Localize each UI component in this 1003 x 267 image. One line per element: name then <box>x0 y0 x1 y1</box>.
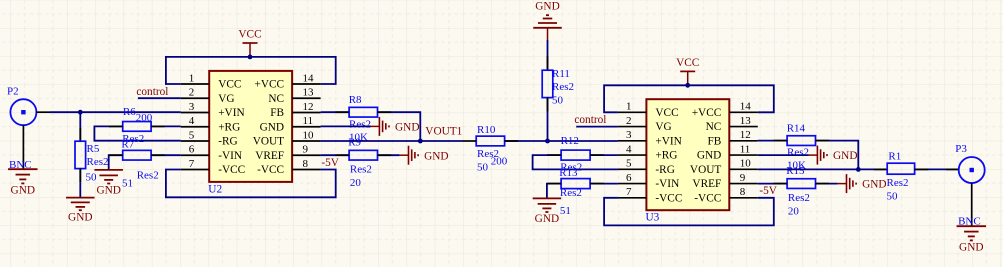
svg-text:3: 3 <box>626 129 632 141</box>
svg-text:Res2: Res2 <box>87 156 109 168</box>
svg-text:GND: GND <box>260 121 284 133</box>
svg-text:R13: R13 <box>559 167 578 179</box>
svg-text:GND: GND <box>535 0 559 12</box>
svg-text:GND: GND <box>862 179 886 191</box>
svg-text:GND: GND <box>535 213 559 225</box>
svg-text:50: 50 <box>86 171 98 183</box>
svg-text:NC: NC <box>268 93 284 105</box>
svg-text:6: 6 <box>626 172 632 184</box>
resistor R1 <box>887 163 914 174</box>
svg-text:GND: GND <box>11 185 35 197</box>
svg-text:control: control <box>136 86 168 98</box>
svg-text:51: 51 <box>122 177 133 189</box>
wire R1 to P3 <box>915 168 959 170</box>
svg-text:P3: P3 <box>955 143 967 155</box>
ground top flipped above R11 <box>533 0 562 28</box>
svg-text:-RG: -RG <box>655 164 674 176</box>
svg-text:14: 14 <box>740 101 752 113</box>
svg-text:control: control <box>574 114 606 126</box>
svg-text:VOUT: VOUT <box>690 164 721 176</box>
wire R7 left to ground <box>109 155 123 170</box>
ground U3 VREF rotated <box>838 174 887 193</box>
svg-text:VG: VG <box>655 121 671 133</box>
svg-text:GND: GND <box>395 122 419 134</box>
svg-text:R12: R12 <box>561 135 579 147</box>
U3 pin 9 <box>729 183 758 185</box>
wire R15 to ground <box>816 183 838 185</box>
svg-text:50: 50 <box>887 190 899 202</box>
wire R11 to VOUT1 line <box>547 98 549 141</box>
U2 pin 5 <box>181 140 210 142</box>
svg-text:U2: U2 <box>208 183 222 195</box>
svg-text:10: 10 <box>740 158 752 170</box>
svg-text:200: 200 <box>136 112 153 124</box>
wire VOUT net U2 pin10 to R10 <box>321 140 463 142</box>
ground P3 shield GND <box>957 226 987 253</box>
ground P2 shield GND <box>8 169 38 196</box>
junction output node <box>856 167 861 172</box>
ground U2 pin11 rotated <box>371 117 420 136</box>
junction VOUT1 <box>418 139 423 144</box>
svg-text:-5V: -5V <box>321 157 339 169</box>
svg-text:U3: U3 <box>646 212 660 224</box>
svg-text:Res2: Res2 <box>787 147 809 159</box>
U3 pin 13 <box>729 126 758 128</box>
svg-text:6: 6 <box>189 144 195 156</box>
resistor R14 <box>787 136 815 146</box>
U2 pin 11 <box>292 126 321 128</box>
ground below R5 <box>66 198 95 224</box>
svg-text:3: 3 <box>189 101 195 113</box>
wire control to pin2 <box>138 97 181 99</box>
wire -VCC loop pin7 to pin8 U2 <box>166 170 336 198</box>
wire R10 to U3 pin3 <box>505 140 618 142</box>
U2 pin 10 <box>292 140 321 142</box>
wire pin9 to R9 <box>321 154 350 156</box>
wire R14 to output node <box>816 141 859 170</box>
svg-text:VOUT1: VOUT1 <box>425 126 462 138</box>
U3 pin 14 <box>729 111 758 113</box>
svg-text:2: 2 <box>626 115 632 127</box>
svg-text:51: 51 <box>560 205 571 217</box>
ground R13 <box>533 198 562 225</box>
wire R9 to ground <box>378 154 400 156</box>
U3 pin 10 <box>729 168 758 170</box>
wire control to U3 pin2 <box>576 126 618 128</box>
U2 pin 9 <box>292 154 321 156</box>
wire P3 shield down <box>971 183 973 226</box>
wire P2 to U2 pin3 <box>50 111 181 113</box>
ground R7 <box>94 170 123 197</box>
svg-text:R15: R15 <box>786 165 805 177</box>
svg-text:VREF: VREF <box>692 178 721 190</box>
wire pin11 to ground <box>321 125 371 127</box>
svg-text:-VIN: -VIN <box>655 178 679 190</box>
svg-text:20: 20 <box>350 177 362 189</box>
svg-text:5: 5 <box>626 158 632 170</box>
svg-text:R14: R14 <box>787 123 806 135</box>
resistor R5 <box>75 141 86 168</box>
wire U3 pin10 to R1 <box>758 168 888 170</box>
svg-text:+RG: +RG <box>218 121 240 133</box>
U2 pin 6 <box>181 154 210 156</box>
wire U3 pin12 to R14 <box>758 140 787 142</box>
svg-text:Res2: Res2 <box>137 170 159 182</box>
svg-text:7: 7 <box>626 186 632 198</box>
svg-text:9: 9 <box>740 172 746 184</box>
wire R12 left loop to U3 pin5 <box>533 155 618 169</box>
U2 pin 7 <box>181 169 210 171</box>
resistor R6 <box>123 122 151 132</box>
svg-text:-VCC: -VCC <box>655 192 682 204</box>
junction VCC-U2 <box>248 55 253 60</box>
svg-text:12: 12 <box>740 129 751 141</box>
svg-text:R8: R8 <box>349 94 362 106</box>
svg-text:-VCC: -VCC <box>257 164 284 176</box>
svg-text:13: 13 <box>740 115 752 127</box>
svg-text:FB: FB <box>707 135 721 147</box>
resistor R9 <box>349 150 377 160</box>
U3 pin 5 <box>618 168 647 170</box>
svg-text:1: 1 <box>626 101 632 113</box>
node A junction P2/R5 <box>78 110 83 115</box>
svg-text:+VIN: +VIN <box>655 135 681 147</box>
U3 pin 3 <box>618 140 647 142</box>
wire R6 left loop to pin5 <box>94 126 180 140</box>
svg-text:7: 7 <box>189 158 195 170</box>
U3 pin 6 <box>618 183 647 185</box>
U3 pin 11 <box>729 154 758 156</box>
svg-text:VREF: VREF <box>255 150 284 162</box>
resistor R10 <box>476 136 504 146</box>
svg-text:-VIN: -VIN <box>218 150 242 162</box>
svg-text:VCC: VCC <box>655 107 678 119</box>
power VCC symbol U2 <box>238 29 261 57</box>
U3 pin 8 <box>729 197 758 199</box>
svg-text:-VCC: -VCC <box>694 192 721 204</box>
wire R6 right to pin4 <box>151 125 181 127</box>
U2 pin 2 <box>181 97 210 99</box>
svg-text:R1: R1 <box>888 150 901 162</box>
svg-text:14: 14 <box>303 72 315 84</box>
resistor R8 <box>349 107 377 117</box>
svg-text:R7: R7 <box>121 138 134 150</box>
op-amp U3 <box>618 99 758 223</box>
resistor R11 <box>542 70 553 97</box>
svg-text:13: 13 <box>303 87 315 99</box>
wire R13 left to ground <box>547 184 561 199</box>
svg-text:50: 50 <box>552 95 564 107</box>
svg-text:10: 10 <box>303 129 315 141</box>
svg-text:Res2: Res2 <box>349 118 371 130</box>
svg-text:R6: R6 <box>123 106 136 118</box>
resistor R7 <box>123 150 151 160</box>
svg-text:Res2: Res2 <box>560 187 582 199</box>
U2 pin 12 <box>292 112 321 114</box>
svg-text:P2: P2 <box>7 85 19 97</box>
junction R11/VOUT1 <box>545 139 550 144</box>
resistor R13 <box>561 179 590 189</box>
svg-text:NC: NC <box>706 121 722 133</box>
junction VCC-U3 <box>685 83 690 88</box>
svg-text:8: 8 <box>303 158 309 170</box>
U3 pin 7 <box>618 197 647 199</box>
U3 pin 4 <box>618 154 647 156</box>
wire R5 to GND <box>79 169 81 198</box>
wire R13 right to U3 pin6 <box>590 183 618 185</box>
svg-text:VCC: VCC <box>238 29 261 41</box>
U2 pin 3 <box>181 112 210 114</box>
svg-text:R11: R11 <box>552 68 570 80</box>
svg-text:11: 11 <box>303 115 314 127</box>
svg-text:GND: GND <box>424 150 448 162</box>
svg-text:VCC: VCC <box>676 57 699 69</box>
U3 pin 2 <box>618 126 647 128</box>
svg-text:GND: GND <box>96 185 120 197</box>
svg-text:-VCC: -VCC <box>218 164 245 176</box>
svg-text:50: 50 <box>477 161 489 173</box>
U2 pin 14 <box>292 83 321 85</box>
svg-text:VOUT: VOUT <box>253 136 284 148</box>
power VCC symbol U3 <box>676 57 699 85</box>
svg-text:-5V: -5V <box>759 185 777 197</box>
wire -VCC loop pin7 to pin8 U3 <box>604 198 774 226</box>
wire R12 right to U3 pin4 <box>590 154 618 156</box>
svg-text:5: 5 <box>189 129 195 141</box>
wire junction down to R5 <box>79 112 81 141</box>
connector P2 BNC <box>7 85 36 125</box>
ground U2 VREF rotated <box>400 146 449 165</box>
wire U3 pin11 to ground <box>758 154 809 156</box>
net VCC rail over U2 <box>166 57 336 84</box>
svg-text:4: 4 <box>626 143 632 155</box>
svg-text:2: 2 <box>189 87 195 99</box>
svg-text:4: 4 <box>189 115 195 127</box>
svg-text:GND: GND <box>959 242 983 254</box>
svg-text:VG: VG <box>218 93 234 105</box>
U3 pin 1 <box>618 111 647 113</box>
svg-text:12: 12 <box>303 101 314 113</box>
U2 pin 8 <box>292 169 321 171</box>
U2 pin 1 <box>181 83 210 85</box>
svg-text:Res2: Res2 <box>350 164 372 176</box>
svg-text:+VCC: +VCC <box>692 107 722 119</box>
svg-text:GND: GND <box>68 211 92 223</box>
wire U3 pin9 to R15 <box>758 183 787 185</box>
wire R7 right to pin6 <box>151 154 181 156</box>
wire R8 to VOUT1 node <box>378 112 421 141</box>
wire pin12 to R8 <box>321 111 350 113</box>
svg-text:+RG: +RG <box>655 150 677 162</box>
net VCC rail over U3 <box>604 85 774 112</box>
resistor R12 <box>561 150 590 160</box>
svg-text:GND: GND <box>833 150 857 162</box>
svg-text:Res2: Res2 <box>887 177 909 189</box>
svg-text:VCC: VCC <box>218 79 241 91</box>
svg-text:8: 8 <box>740 186 746 198</box>
svg-text:-RG: -RG <box>218 136 237 148</box>
svg-text:9: 9 <box>303 144 309 156</box>
svg-text:20: 20 <box>788 206 800 218</box>
resistor R15 <box>787 179 815 189</box>
svg-text:GND: GND <box>697 150 721 162</box>
svg-text:FB: FB <box>270 107 284 119</box>
svg-text:11: 11 <box>740 143 751 155</box>
svg-text:200: 200 <box>491 156 508 168</box>
pin P2 center <box>36 111 50 113</box>
ground U3 pin11 rotated <box>809 146 858 165</box>
wire P2 shield down <box>22 125 24 169</box>
U2 pin 4 <box>181 126 210 128</box>
U2 pin 13 <box>292 97 321 99</box>
svg-text:R9: R9 <box>348 137 361 149</box>
svg-text:R5: R5 <box>87 143 100 155</box>
connector P3 BNC <box>955 143 984 183</box>
svg-text:Res2: Res2 <box>552 81 574 93</box>
svg-text:+VCC: +VCC <box>254 79 284 91</box>
svg-text:R10: R10 <box>477 124 496 136</box>
wire ground to R11 <box>547 28 549 40</box>
svg-text:Res2: Res2 <box>788 192 810 204</box>
svg-text:+VIN: +VIN <box>218 107 244 119</box>
op-amp U2 <box>181 71 321 195</box>
svg-text:1: 1 <box>189 72 195 84</box>
U3 pin 12 <box>729 140 758 142</box>
